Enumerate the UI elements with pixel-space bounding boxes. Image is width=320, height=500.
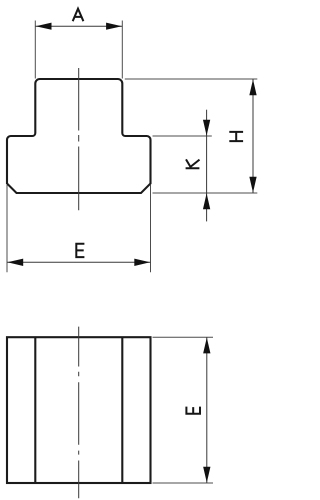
dimension E (upper) arrow right [134,259,150,266]
dimension E (upper) extension line left [6,185,8,272]
lower view centerline (dash-dot) [78,327,80,499]
lower view slot edge left [34,337,36,483]
label K (rotated) [186,159,200,168]
dimension K line [206,110,208,222]
label E (lower, rotated) [185,407,201,414]
upper view: T-nut profile outline [7,79,151,193]
dimension H arrow up [249,79,256,95]
dimension H line [252,79,254,193]
dimension H / K bottom extension line [153,192,258,194]
label A [73,9,84,22]
label E (upper) [75,243,84,258]
dimension A line [35,25,122,27]
lower view: front face rectangle [7,337,151,483]
dimension E (upper) arrow left [7,259,23,266]
dimension K arrow down [203,120,210,136]
dimension E (lower) line [206,337,208,483]
dimension A arrow right [106,23,122,30]
upper view centerline (dash-dot) [78,68,80,210]
lower view slot edge right [121,337,123,483]
dimension H top extension line [125,78,257,80]
dimension E (upper) line [7,261,151,263]
dimension E (lower) bottom extension line [153,482,214,484]
dimension K extension line [153,135,212,137]
dimension E (lower) top extension line [153,336,214,338]
dimension A extension line left [34,21,36,79]
dimension H arrow down [249,177,256,193]
dimension E (lower) arrow down [203,467,210,483]
dimension A arrow left [36,23,52,30]
dimension A extension line right [121,21,123,79]
dimension K arrow up [203,193,210,209]
dimension E (lower) arrow up [203,338,210,354]
dimension E (upper) extension line right [150,185,152,273]
label H (rotated) [229,132,243,141]
